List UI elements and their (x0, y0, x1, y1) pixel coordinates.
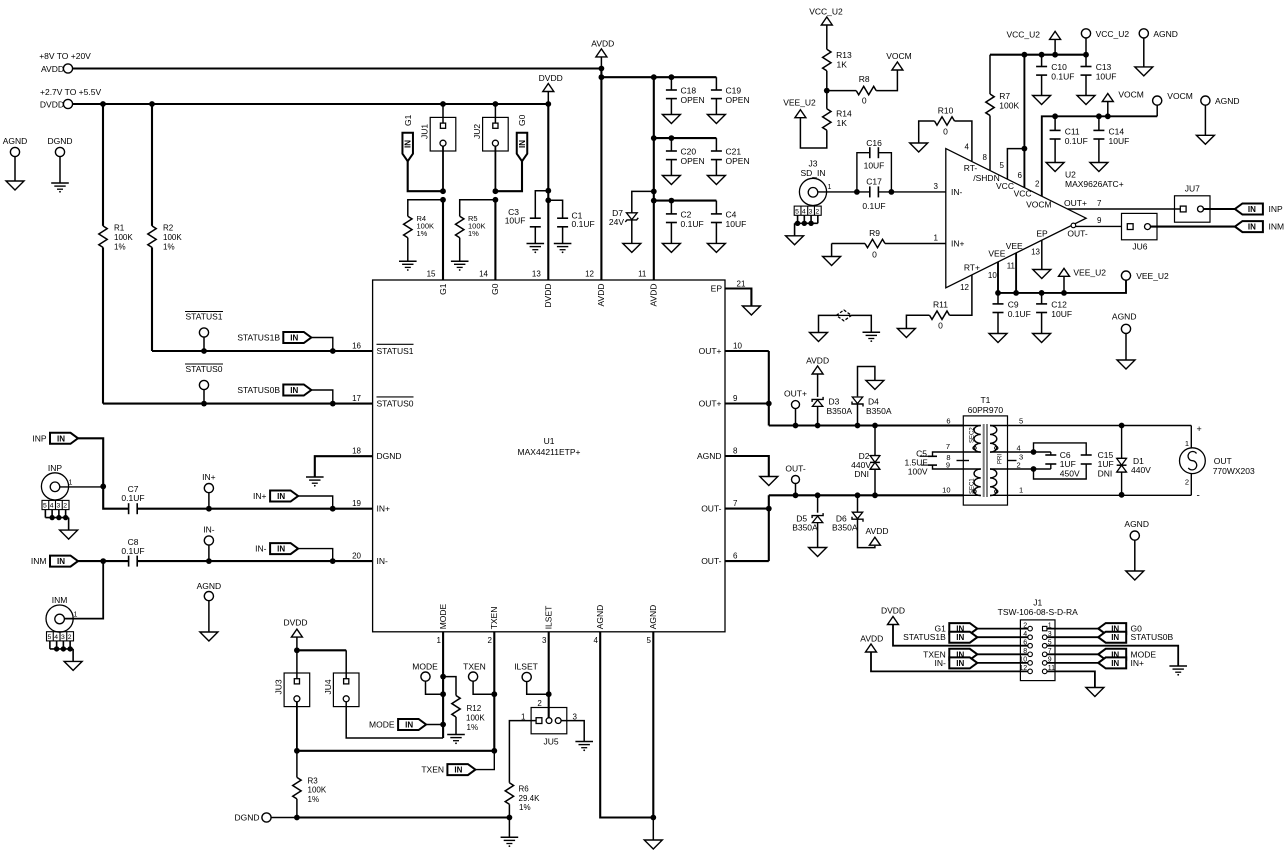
svg-text:IN: IN (290, 334, 298, 343)
wire DVDD to JU4 (345, 650, 347, 678)
svg-text:+8V TO +20V: +8V TO +20V (39, 51, 91, 61)
svg-text:100K: 100K (308, 786, 327, 795)
svg-text:R11: R11 (933, 300, 948, 310)
wire DVDD to JU2 (494, 104, 496, 123)
svg-text:MODE: MODE (412, 662, 438, 672)
capacitor C4 (711, 201, 746, 244)
wire IN+ net (137, 506, 372, 512)
U1 pin 11 number (638, 270, 647, 279)
capacitor C2 (666, 201, 704, 244)
svg-text:AGND: AGND (1112, 312, 1137, 322)
svg-text:R2: R2 (163, 224, 174, 233)
capacitor C13 (1081, 55, 1117, 96)
svg-text:C13: C13 (1096, 62, 1112, 72)
svg-text:10UF: 10UF (726, 219, 747, 229)
ground R6 (501, 837, 519, 847)
capacitor C6 (1045, 450, 1080, 478)
svg-text:AVDD: AVDD (591, 39, 614, 49)
svg-text:8: 8 (983, 153, 988, 162)
power VEE_U2 arrow R14 (783, 98, 816, 118)
svg-text:RT+: RT+ (964, 262, 980, 272)
svg-text:AVDD: AVDD (866, 526, 889, 536)
svg-text:STATUS0: STATUS0 (186, 364, 223, 374)
diode D6 B350A (832, 495, 863, 532)
ground AGND input (200, 632, 218, 641)
svg-text:1: 1 (1185, 439, 1189, 448)
svg-text:60PR970: 60PR970 (968, 405, 1004, 415)
svg-text:IN+: IN+ (202, 472, 216, 482)
jumper JU7 (1175, 184, 1211, 223)
U1 pin 15 number (427, 270, 436, 279)
U1 pin 13 number (532, 270, 541, 279)
ground AGND top-left (6, 181, 24, 190)
svg-text:1: 1 (1019, 486, 1023, 495)
ground C2 (662, 243, 680, 252)
resistor R12 (443, 677, 485, 735)
T1 pin 9 number (946, 460, 950, 469)
U2 pin 2 number (1035, 180, 1040, 189)
wire G1 to pin15 (442, 200, 444, 280)
svg-text:R13: R13 (836, 50, 852, 60)
svg-text:10UF: 10UF (1096, 71, 1117, 81)
capacitor C16 loop (857, 138, 892, 192)
svg-text:4: 4 (594, 636, 599, 645)
svg-text:4: 4 (1017, 444, 1021, 453)
capacitor C9 (993, 293, 1031, 334)
ground DGND pin18 (306, 477, 324, 487)
ground C19 (707, 115, 725, 124)
svg-text:T1: T1 (980, 395, 990, 405)
ground C3 (527, 244, 545, 254)
svg-text:SEC1: SEC1 (970, 478, 976, 494)
capacitor C15 loop (1034, 443, 1114, 479)
svg-text:VEE: VEE (988, 249, 1005, 259)
svg-text:SEC2: SEC2 (970, 427, 976, 443)
wire DVDD bottom node (294, 647, 346, 653)
svg-text:JU3: JU3 (274, 679, 284, 694)
power VOCM arrow rail (1102, 90, 1144, 117)
svg-text:PRI: PRI (998, 454, 1004, 464)
svg-text:10: 10 (733, 341, 742, 350)
svg-text:STATUS1: STATUS1 (186, 312, 223, 322)
wire R9 gnd leg (831, 244, 833, 257)
U1 pin 17 number (352, 394, 361, 403)
T1 pin 10 number (942, 486, 950, 495)
svg-text:IN: IN (956, 633, 964, 642)
tag TXEN IN (421, 764, 475, 775)
wire JU4 to MODE (346, 702, 443, 739)
svg-text:J3: J3 (809, 159, 818, 169)
svg-text:OPEN: OPEN (726, 156, 750, 166)
diode D2 TVS (851, 426, 880, 496)
terminal DGND bottom (234, 813, 296, 823)
U2 pin 4 number (965, 143, 970, 152)
wire DVDD rail (73, 101, 552, 107)
U2 pin 8 number (983, 153, 988, 162)
JU5 pin 2 number (537, 699, 542, 708)
svg-text:6: 6 (733, 552, 738, 561)
ground C4 (707, 243, 725, 252)
svg-text:C10: C10 (1051, 62, 1067, 72)
svg-text:1%: 1% (519, 803, 531, 812)
wire JU5 pin1 to R6 (509, 721, 536, 783)
wire AVDD to pin12 (599, 69, 605, 281)
svg-text:G1: G1 (438, 283, 448, 295)
U1 pin 14 number (479, 270, 488, 279)
svg-text:IN: IN (277, 545, 285, 554)
wire J1 pin8 (977, 653, 1028, 655)
capacitor C5 (904, 449, 963, 477)
resistor R13 (823, 49, 852, 93)
svg-text:DGND: DGND (47, 136, 72, 146)
svg-text:VOCM: VOCM (886, 51, 912, 61)
svg-text:RT-: RT- (964, 163, 978, 173)
svg-text:2: 2 (63, 503, 67, 510)
svg-text:1%: 1% (308, 795, 320, 804)
wire J1 pin9 (1047, 662, 1100, 664)
svg-text:IN-: IN- (203, 525, 215, 535)
op-amp U2 triangle (946, 149, 1086, 288)
wire OUT- pin6 (725, 552, 769, 562)
wire JU2 to G0 node (493, 146, 499, 203)
wire EP pin13 U2 (1041, 240, 1043, 269)
JU5 pin 3 number (573, 712, 578, 721)
wire DGND pin18 (315, 456, 373, 477)
connector J1 TSW-106-08-S-D-RA (998, 598, 1078, 681)
svg-text:DNI: DNI (854, 469, 869, 479)
svg-text:INP: INP (32, 433, 47, 443)
svg-text:AGND: AGND (648, 605, 658, 630)
svg-text:R12: R12 (467, 704, 482, 713)
svg-text:VCC: VCC (1014, 189, 1032, 199)
wire AGND pin8 (725, 446, 769, 476)
svg-text:440V: 440V (1131, 465, 1151, 475)
U2 pin 3 number (934, 182, 939, 191)
wire G1 tag to node (408, 161, 443, 191)
U2 pin 12 number (960, 283, 969, 292)
wire JU1 to G1 node (440, 146, 446, 203)
wire MODE tag (426, 724, 443, 726)
svg-text:5: 5 (795, 208, 799, 215)
svg-text:770WX203: 770WX203 (1213, 466, 1255, 476)
svg-text:IN: IN (277, 492, 285, 501)
svg-text:VEE_U2: VEE_U2 (1136, 271, 1169, 281)
svg-text:VCC: VCC (996, 181, 1014, 191)
svg-text:DNI: DNI (1098, 468, 1113, 478)
svg-text:0: 0 (943, 127, 948, 137)
tag IN- IN (255, 543, 298, 554)
T1 pin 3 number (1019, 452, 1023, 461)
resistor R10 (919, 106, 972, 162)
T1 pin 1 number (1019, 486, 1023, 495)
svg-text:2: 2 (488, 636, 493, 645)
svg-text:12: 12 (585, 270, 594, 279)
wire J1 pin10 (977, 662, 1028, 664)
svg-text:AVDD: AVDD (806, 355, 829, 365)
U2 reference label (1065, 170, 1124, 190)
svg-text:G1: G1 (403, 114, 413, 126)
svg-text:R10: R10 (938, 106, 954, 116)
svg-text:0: 0 (872, 250, 877, 260)
svg-text:B350A: B350A (827, 406, 853, 416)
svg-text:R14: R14 (836, 109, 852, 119)
wire DVDD to JU1 (442, 104, 444, 123)
ground AGND pin8 (760, 477, 778, 486)
tag G0 IN (517, 114, 528, 161)
svg-text:6: 6 (946, 416, 950, 425)
wire OUT- pin9 U2 (1067, 216, 1121, 239)
svg-text:0.1UF: 0.1UF (121, 546, 144, 556)
power VCC_U2 arrow rail (1006, 30, 1060, 55)
J1 pin 6 number (1023, 639, 1027, 646)
svg-text:STATUS1: STATUS1 (377, 346, 414, 356)
svg-text:R3: R3 (308, 776, 319, 785)
svg-text:VEE: VEE (1006, 241, 1023, 251)
wire J1 pin5 gnd (1047, 646, 1178, 666)
wire IN+ tag to pin19 (298, 496, 333, 509)
wire IN- tag to pin20 (298, 549, 333, 562)
resistor R14 (823, 91, 852, 131)
terminal AVDD input (39, 51, 91, 74)
svg-text:IN+: IN+ (951, 239, 965, 249)
tag INM IN left (1235, 221, 1284, 232)
power DVDD arrow top (539, 73, 563, 104)
terminal DGND top-left (47, 136, 72, 183)
svg-text:IN: IN (404, 140, 413, 148)
J1 pin 10 number (1019, 657, 1027, 664)
svg-text:STATUS0: STATUS0 (377, 399, 414, 409)
capacitor C20 (666, 138, 705, 175)
svg-text:J1: J1 (1033, 598, 1042, 608)
svg-text:5: 5 (43, 503, 47, 510)
svg-text:IN: IN (57, 434, 65, 443)
resistor R2 (148, 104, 183, 351)
svg-text:4: 4 (54, 634, 58, 641)
ground EP pin21 (742, 306, 760, 315)
tag G1 IN (402, 114, 413, 161)
wire JU6 to INM (1151, 226, 1235, 228)
wire JU7 to INP (1204, 208, 1235, 210)
svg-text:1%: 1% (467, 723, 479, 732)
svg-text:TSW-106-08-S-D-RA: TSW-106-08-S-D-RA (998, 607, 1078, 617)
ground R5 (451, 261, 469, 271)
ground C11 (1046, 163, 1064, 172)
svg-text:9: 9 (946, 460, 950, 469)
power AVDD arrow D6 (866, 526, 889, 545)
svg-text:4: 4 (802, 208, 806, 215)
svg-text:9: 9 (1097, 216, 1102, 225)
svg-text:OUT-: OUT- (701, 504, 721, 514)
U2 pin 1 number (934, 234, 939, 243)
svg-text:IN: IN (518, 140, 527, 148)
svg-text:ILSET: ILSET (544, 606, 554, 630)
wire J1 pin2 (977, 628, 1028, 630)
svg-text:0.1UF: 0.1UF (681, 219, 704, 229)
capacitor C18 (666, 77, 705, 114)
wire JU5 pin3 gnd (561, 721, 584, 742)
ground DGND top-left (51, 183, 69, 193)
wire R6 gnd leg (508, 818, 510, 838)
J1 pin 3 number (1048, 631, 1052, 638)
svg-text:R7: R7 (999, 91, 1010, 101)
wire VOCM rail (1042, 113, 1157, 196)
ground AGND pins 4-5 (644, 840, 662, 849)
svg-text:1: 1 (828, 184, 832, 191)
svg-text:9: 9 (733, 394, 738, 403)
svg-text:3: 3 (56, 503, 60, 510)
ground AGND top1 (1135, 67, 1153, 76)
wire INM pin1 (65, 561, 104, 619)
terminal AGND top2 (1201, 96, 1240, 135)
svg-text:AVDD: AVDD (41, 64, 64, 74)
resistor R9 (832, 228, 946, 260)
jumper JU1 (420, 117, 456, 151)
svg-text:IN+: IN+ (377, 504, 391, 514)
wire STATUS0B to pin17 (311, 390, 333, 404)
jumper JU3 (274, 673, 310, 707)
capacitor C10 (1036, 55, 1074, 96)
svg-text:5: 5 (1019, 416, 1023, 425)
svg-text:5: 5 (647, 636, 652, 645)
T1 pin 4 number (1017, 444, 1021, 453)
U2 pin 11 number (1007, 262, 1016, 271)
svg-text:1: 1 (437, 636, 442, 645)
svg-text:450V: 450V (1060, 468, 1080, 478)
tag IN+ IN (253, 491, 298, 502)
svg-text:0: 0 (938, 321, 943, 331)
wire DVDD to pin13 (545, 104, 551, 280)
wire D7 branch (632, 191, 654, 212)
U1 pin 5 number (647, 636, 652, 645)
capacitor C17 (862, 177, 885, 211)
ground C1 (554, 244, 572, 254)
ground R4 (399, 261, 417, 271)
wire R8 to VOCM (876, 70, 897, 91)
J1 pin 2 number (1023, 622, 1027, 629)
power VEE_U2 arrow rail (1059, 267, 1107, 293)
connector INM coax (46, 595, 78, 632)
J1 pin 8 number (1023, 648, 1027, 655)
svg-text:JU7: JU7 (1185, 184, 1200, 194)
svg-text:STATUS1B: STATUS1B (237, 333, 280, 343)
terminal TXEN (463, 662, 494, 695)
svg-text:100K: 100K (114, 233, 133, 242)
transformer T1 60PR970 (957, 395, 1017, 505)
svg-text:VOCM: VOCM (1167, 91, 1193, 101)
wire OUT+ pin10 (725, 351, 772, 426)
ground EP U2 (1033, 270, 1051, 279)
U1 pin 16 number (352, 341, 361, 350)
svg-text:OUT-: OUT- (1067, 229, 1087, 239)
capacitor C7 (121, 484, 144, 514)
jumper JU6 (1122, 213, 1158, 251)
svg-text:B350A: B350A (792, 523, 818, 533)
wire D6 to AVDD (858, 519, 875, 547)
svg-text:IN-: IN- (377, 556, 389, 566)
svg-text:INM: INM (1269, 222, 1285, 232)
power AVDD arrow J1 (860, 633, 1028, 671)
ground net-tie right (863, 332, 881, 342)
svg-text:G0: G0 (517, 114, 527, 126)
svg-text:0.1UF: 0.1UF (862, 201, 885, 211)
svg-text:IN+: IN+ (253, 491, 267, 501)
wire AVDD cap row3 (654, 198, 717, 204)
wire J3 pin1 (818, 189, 870, 195)
svg-text:19: 19 (352, 499, 361, 508)
power VCC_U2 arrow R13 (809, 7, 843, 50)
svg-text:IN: IN (1111, 633, 1119, 642)
svg-text:OUT+: OUT+ (699, 399, 722, 409)
tag INM IN (31, 556, 78, 567)
svg-text:1%: 1% (163, 243, 175, 252)
svg-text:C16: C16 (866, 138, 882, 148)
svg-text:DGND: DGND (377, 451, 402, 461)
wire J1 pin3 (1047, 636, 1100, 638)
wire VEE pin10 (997, 262, 999, 293)
svg-text:16: 16 (352, 341, 361, 350)
tag MODE IN (369, 719, 426, 730)
svg-text:ILSET: ILSET (514, 662, 538, 672)
resistor R6 (505, 783, 540, 818)
tag STATUS0B IN (237, 385, 311, 396)
ground C12 (1033, 334, 1051, 343)
svg-text:17: 17 (352, 394, 361, 403)
svg-text:STATUS0B: STATUS0B (1131, 632, 1174, 642)
svg-text:MAX44211ETP+: MAX44211ETP+ (518, 447, 581, 457)
wire G0 to pin14 (494, 200, 496, 280)
J1 pin 5 number (1048, 639, 1052, 646)
capacitor C12 (1036, 293, 1072, 334)
ground D4 (866, 380, 884, 389)
terminal VCC_U2 (1081, 29, 1129, 55)
wire INP pin1 (60, 484, 106, 490)
J1 pin 12 number (1019, 665, 1027, 672)
wire INM node (78, 558, 129, 564)
svg-text:C4: C4 (726, 209, 737, 219)
svg-text:21: 21 (737, 279, 746, 288)
resistor R5 (456, 200, 496, 261)
U2 pin 10 number (988, 271, 997, 280)
op-amp U1 MAX44211ETP+ body (373, 280, 725, 632)
terminal AGND out (1124, 519, 1149, 571)
svg-text:IN: IN (1111, 659, 1119, 668)
tag INP IN left (1235, 204, 1283, 215)
connector J3 shield pins (786, 206, 822, 245)
svg-text:OUT: OUT (1214, 456, 1232, 466)
wire ILSET net (546, 632, 552, 718)
svg-text:AGND: AGND (697, 451, 722, 461)
svg-text:10UF: 10UF (864, 161, 885, 171)
svg-text:U2: U2 (1065, 170, 1076, 180)
svg-text:MAX9626ATC+: MAX9626ATC+ (1065, 179, 1124, 189)
svg-text:INP: INP (48, 463, 63, 473)
power VOCM arrow R8 (886, 51, 912, 70)
connector INP coax (41, 463, 72, 500)
wire T1 pin1 rail (1008, 492, 1192, 498)
svg-text:AGND: AGND (3, 136, 28, 146)
svg-text:C14: C14 (1109, 127, 1125, 137)
ground D7 (623, 243, 641, 252)
tag STATUS1B IN J1 (903, 632, 977, 643)
svg-text:C20: C20 (681, 147, 697, 157)
wire VEE rail (995, 280, 1126, 296)
svg-text:10UF: 10UF (505, 216, 526, 226)
wire EP pin21 (725, 279, 751, 306)
svg-text:AGND: AGND (1215, 96, 1240, 106)
svg-text:VCC_U2: VCC_U2 (1096, 29, 1130, 39)
wire STATUS0 net (103, 401, 373, 407)
T1 pin 8 number (946, 453, 950, 462)
